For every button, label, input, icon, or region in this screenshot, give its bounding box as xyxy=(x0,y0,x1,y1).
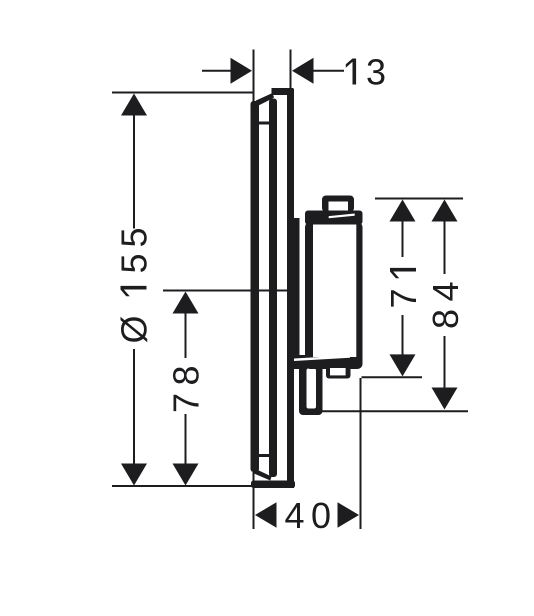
extension line bottom-left (plate bottom level) xyxy=(112,485,254,487)
svg-text:Ø: Ø xyxy=(114,315,155,343)
handle bottom knob ring xyxy=(326,364,351,379)
extension line vertical rear face bottom (40 left) xyxy=(253,472,255,529)
escutcheon back plate edge (bar A) xyxy=(251,101,260,472)
plate corner rung bottom xyxy=(257,454,269,457)
label 13 xyxy=(346,59,356,85)
front plate bottom cap xyxy=(251,481,295,489)
front plate edge (bar C) xyxy=(287,89,294,488)
plate bottom slanted rim xyxy=(254,469,272,481)
dimension 84 line upper xyxy=(444,219,446,274)
arrowhead 78 bottom xyxy=(173,464,199,486)
dimension 78 line upper xyxy=(185,312,187,358)
extension line vertical handle front bottom (40 right) xyxy=(360,378,362,529)
handle body outline xyxy=(305,222,363,369)
dimension 13 shaft right xyxy=(313,70,344,72)
svg-text:7: 7 xyxy=(166,393,207,413)
extension line right (stub bottom level, 84) xyxy=(321,410,468,412)
arrowhead 155 bottom xyxy=(121,464,147,486)
dimension 13 shaft left xyxy=(202,70,231,72)
svg-text:8: 8 xyxy=(425,309,466,329)
valve sleeve behind handle xyxy=(294,218,300,363)
handle top knob ring xyxy=(322,196,354,213)
plate top slanted rim xyxy=(254,93,275,107)
handle body face xyxy=(313,225,356,358)
dimension 155 line lower xyxy=(133,349,135,465)
extension line vertical rear face top (13 left) xyxy=(253,50,255,110)
label diameter 155 xyxy=(114,227,155,343)
svg-text:0: 0 xyxy=(311,495,331,536)
svg-text:7: 7 xyxy=(383,288,424,308)
dimension 71 line upper xyxy=(402,219,404,257)
label 78 xyxy=(166,365,207,413)
arrowhead 40 left xyxy=(255,502,277,528)
arrowhead 84 bottom xyxy=(432,388,458,410)
plate corner rung top xyxy=(257,122,269,125)
front plate top cap xyxy=(272,88,294,95)
arrowhead 155 top xyxy=(121,94,147,116)
inner plate back edge (bar B) xyxy=(269,99,277,478)
svg-text:4: 4 xyxy=(285,495,305,536)
handle bottom cap highlight sliver xyxy=(294,355,350,361)
arrowhead 13 pointing left xyxy=(292,58,314,84)
arrowhead 13 pointing right xyxy=(231,58,253,84)
svg-text:4: 4 xyxy=(425,281,466,301)
label 71 xyxy=(383,268,424,309)
arrowhead 40 right xyxy=(338,502,360,528)
handle top knob inner xyxy=(329,202,349,212)
lower stop stub inner face xyxy=(307,369,317,409)
arrowhead 71 bottom xyxy=(390,354,416,376)
lower stop stub outline xyxy=(299,364,323,416)
arrowhead 84 top xyxy=(432,200,458,222)
dimension 84 line lower xyxy=(444,336,446,389)
handle bottom cap left extension xyxy=(294,355,313,369)
handle bottom knob inner xyxy=(330,368,346,375)
handle top cap xyxy=(305,211,363,225)
svg-text:5: 5 xyxy=(114,227,155,247)
dimension 71 line lower xyxy=(402,315,404,356)
dimension 78 line lower xyxy=(185,414,187,465)
svg-text:8: 8 xyxy=(166,365,207,385)
arrowhead 78 top xyxy=(173,292,199,314)
dimension 155 line upper xyxy=(133,114,135,229)
extension line top-right (knob top level) xyxy=(375,198,463,200)
handle top cap highlight sliver xyxy=(329,214,355,219)
svg-text:3: 3 xyxy=(366,52,386,93)
extension line right (handle bottom level, 71) xyxy=(362,376,423,378)
extension line centerline (78 reference) xyxy=(163,290,289,292)
extension line vertical front face top (13 right) xyxy=(290,50,292,94)
svg-text:5: 5 xyxy=(114,253,155,273)
extension line top-left (plate top level) xyxy=(112,92,254,94)
label 84 xyxy=(425,281,466,329)
arrowhead 71 top xyxy=(390,200,416,222)
